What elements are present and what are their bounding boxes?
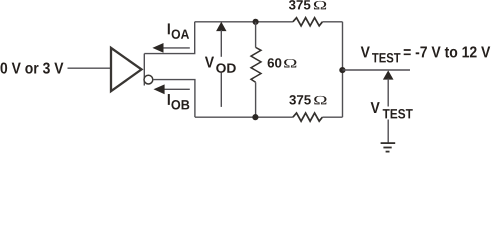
label IOA <box>168 23 189 39</box>
wire: bottom branch (inverting output) <box>153 80 195 118</box>
wire: top rail left of resistor <box>195 21 293 23</box>
node dot: VTEST tap junction <box>339 67 345 73</box>
input label "0 V or 3 V" <box>0 62 63 73</box>
wire: input to buffer <box>68 67 111 69</box>
label 375 ohm top <box>289 0 326 9</box>
wire: VTEST source to ground (gap at TEST label) <box>387 79 389 144</box>
label IOB <box>168 94 189 110</box>
label VOD <box>205 57 236 73</box>
current arrow IOB <box>154 84 190 94</box>
wire: 60 ohm top lead <box>255 22 257 48</box>
voltage arrow VTEST (up arrowhead) <box>383 70 394 79</box>
node dot: bottom rail / 60 ohm junction <box>252 114 258 120</box>
wire: 60 ohm bottom lead <box>255 82 257 117</box>
wire: top branch (noninverting output) <box>144 22 194 54</box>
wire: right vertical rail <box>342 22 344 117</box>
inversion bubble <box>144 75 153 84</box>
voltage arrow VOD (up arrowhead + line with text gap) <box>216 22 226 107</box>
label 60 ohm <box>268 58 297 67</box>
resistor 375 ohm top (zigzag) <box>293 18 323 26</box>
resistor 60 ohm (vertical zigzag) <box>251 47 261 82</box>
wire: top rail right of resistor <box>322 21 342 23</box>
label VTEST = -7 V to 12 V <box>361 46 491 62</box>
wire: tap to VTEST source <box>343 69 411 71</box>
label VTEST (at source) <box>371 102 413 118</box>
ground <box>381 143 396 152</box>
label 375 ohm bottom <box>289 95 326 104</box>
resistor 375 ohm bottom (zigzag) <box>293 113 323 121</box>
current arrow IOA <box>152 43 189 53</box>
wire: apex vertical bar <box>143 54 145 86</box>
wire: bottom rail left of resistor <box>195 116 293 118</box>
buffer U1 (triangle) <box>111 48 142 91</box>
node dot: top rail / 60 ohm junction <box>253 19 259 25</box>
wire: bottom rail right of resistor <box>322 116 342 118</box>
